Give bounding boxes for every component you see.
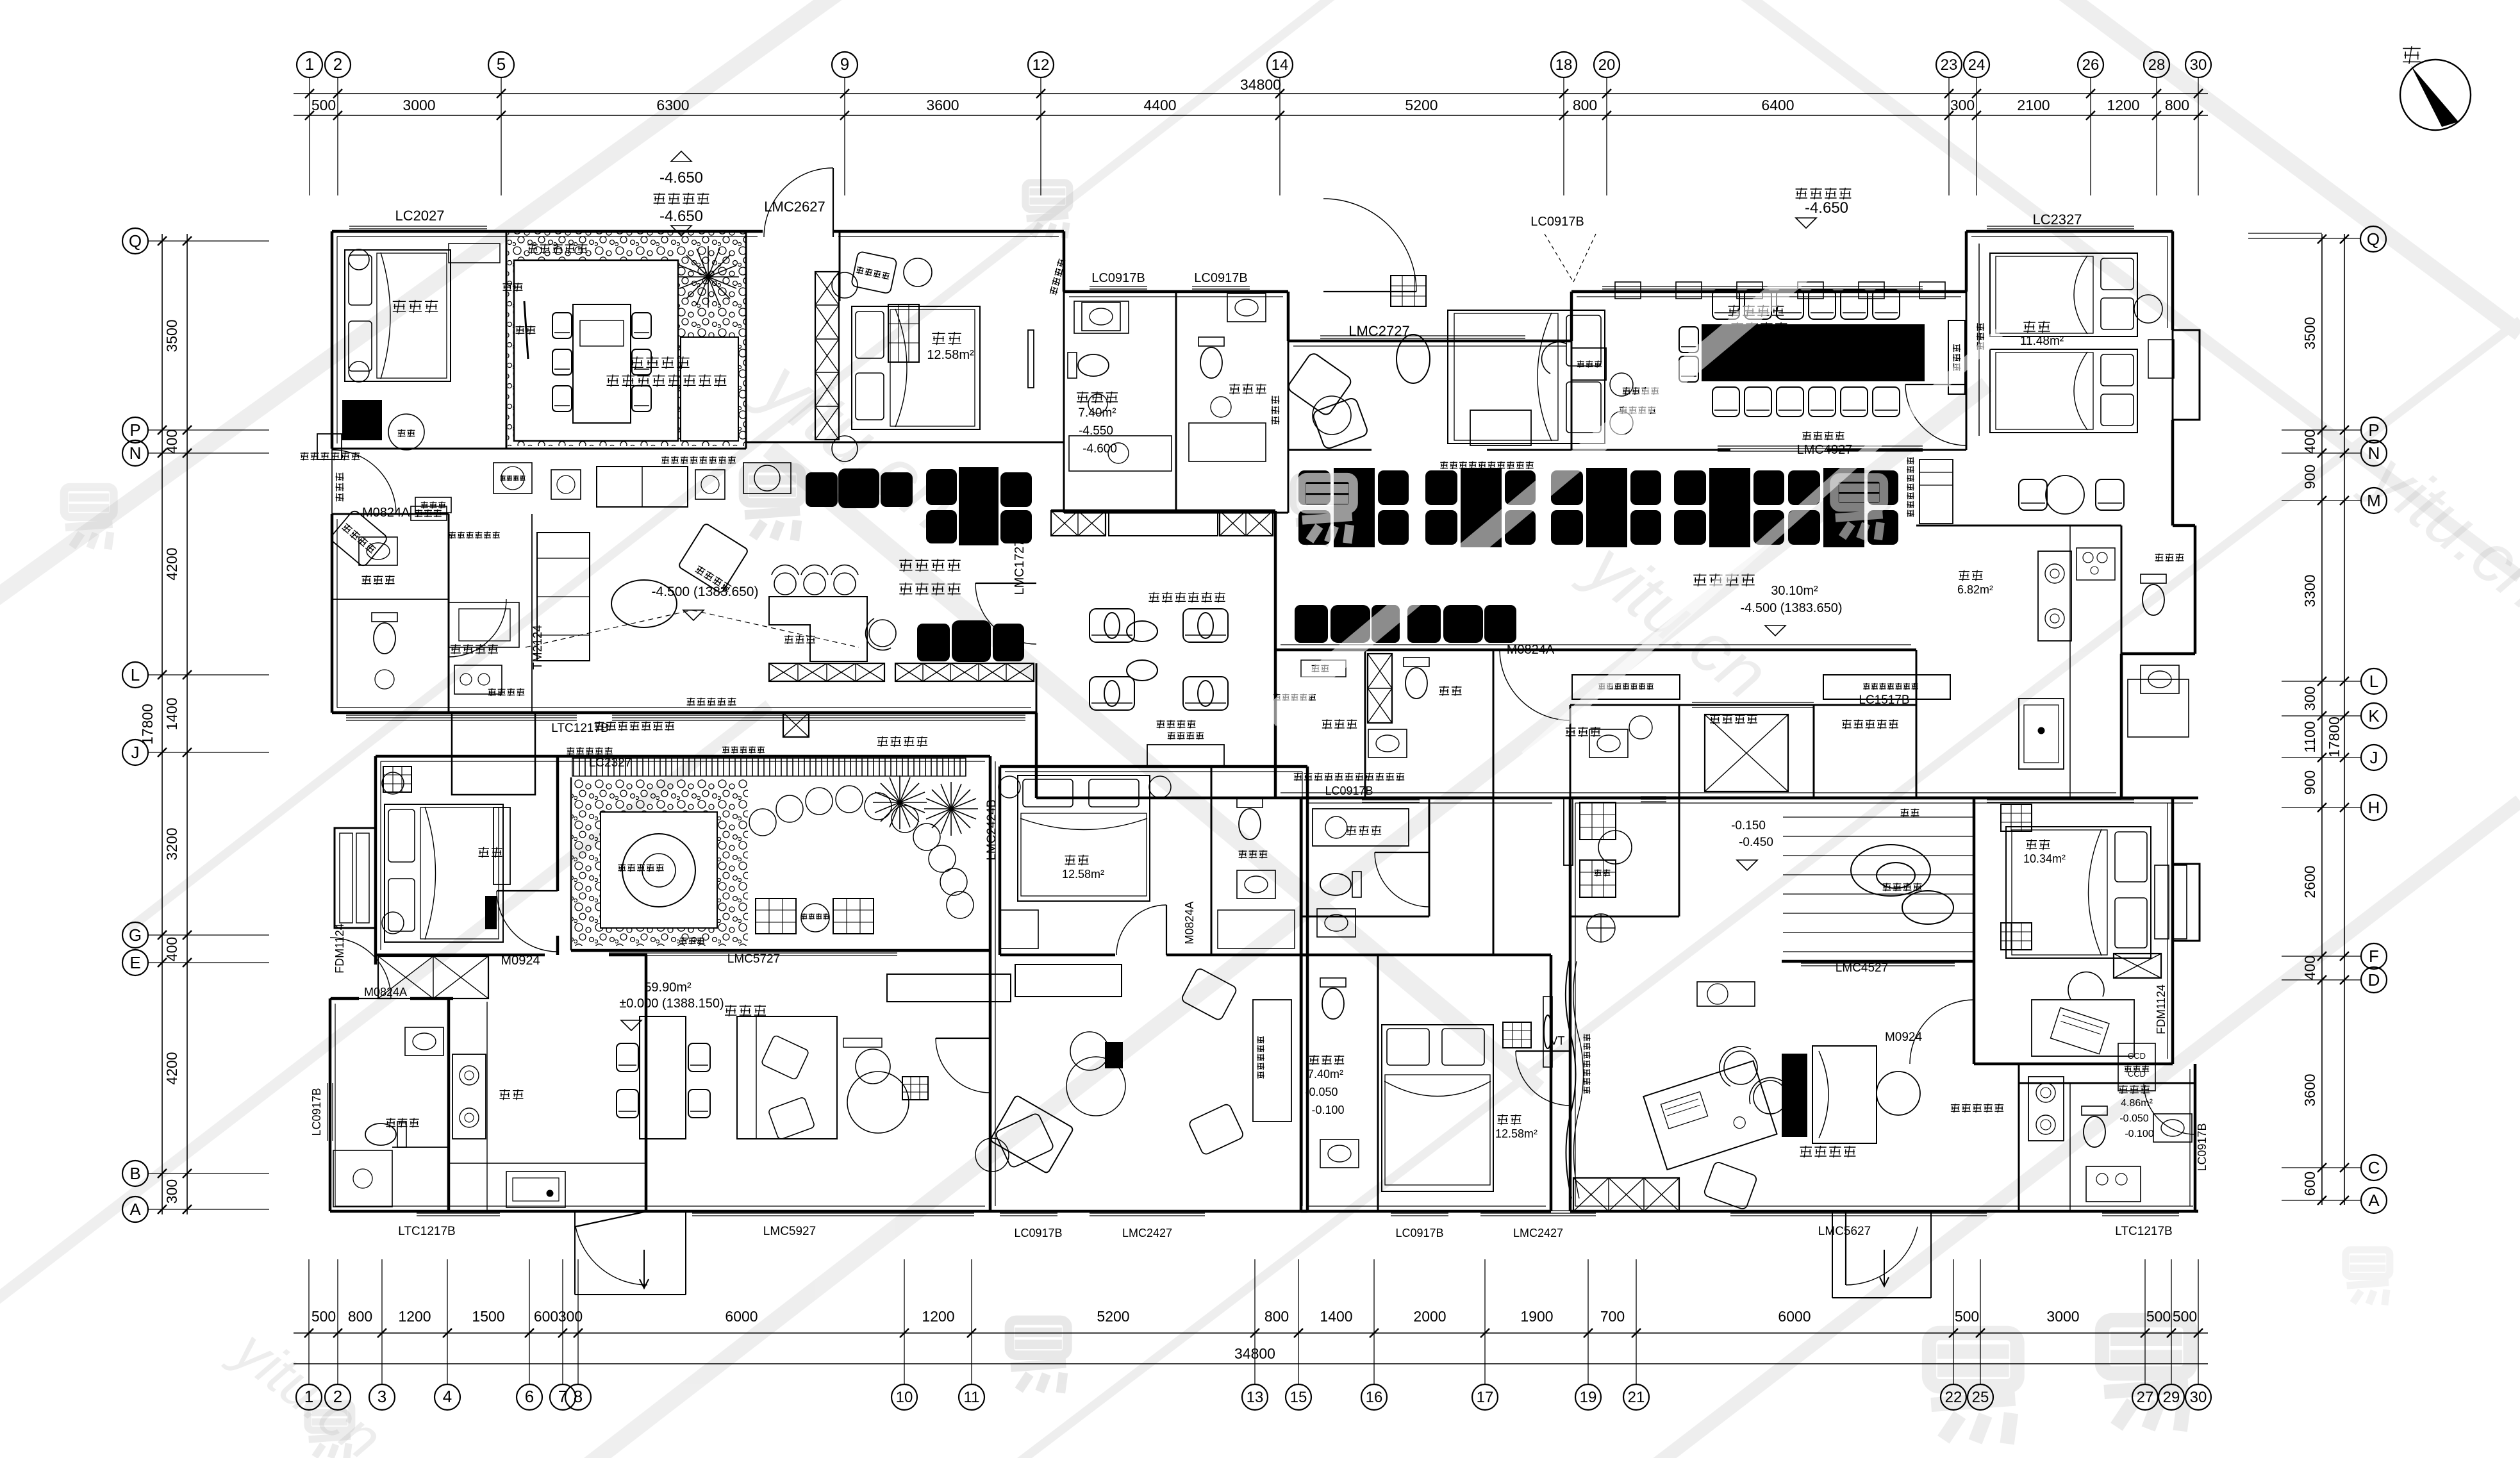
svg-text:LMC5727: LMC5727 xyxy=(727,952,780,966)
bottom-left bathroom fixtures xyxy=(405,1027,443,1056)
kitchen top wing xyxy=(1959,570,1983,581)
svg-text:1200: 1200 xyxy=(2107,97,2139,113)
svg-text:F: F xyxy=(2369,947,2379,966)
svg-text:Q: Q xyxy=(2367,229,2380,249)
svg-text:C: C xyxy=(2368,1158,2380,1177)
svg-text:LC0917B: LC0917B xyxy=(1325,784,1373,797)
bathrooms 7.40 block xyxy=(1074,301,1129,333)
svg-text:7.40m²: 7.40m² xyxy=(1307,1068,1343,1081)
svg-text:LMC2727: LMC2727 xyxy=(1348,323,1409,339)
bottom wing outer walls xyxy=(376,755,990,758)
svg-text:17: 17 xyxy=(1477,1389,1494,1406)
svg-text:3300: 3300 xyxy=(2301,574,2318,607)
svg-text:-4.650: -4.650 xyxy=(1805,199,1848,217)
svg-text:FDM1124: FDM1124 xyxy=(2155,984,2168,1034)
afternoon tea black seating xyxy=(806,472,838,507)
svg-text:E: E xyxy=(129,953,140,972)
svg-text:600: 600 xyxy=(2301,1172,2318,1196)
svg-text:24: 24 xyxy=(1968,56,1985,74)
svg-text:30: 30 xyxy=(2190,1389,2207,1406)
svg-text:L: L xyxy=(131,665,140,684)
svg-text:500: 500 xyxy=(311,97,336,113)
svg-text:29: 29 xyxy=(2163,1389,2180,1406)
svg-text:900: 900 xyxy=(2301,770,2318,795)
svg-text:±0.000 (1388.150): ±0.000 (1388.150) xyxy=(619,997,724,1011)
top wing interior partitions xyxy=(506,231,508,449)
svg-text:500: 500 xyxy=(2173,1308,2197,1325)
north arrow xyxy=(2400,60,2471,130)
svg-text:LMC2427: LMC2427 xyxy=(1513,1227,1563,1239)
svg-text:6400: 6400 xyxy=(1761,97,1794,113)
svg-text:300: 300 xyxy=(1950,97,1975,113)
svg-text:K: K xyxy=(2368,706,2380,725)
svg-text:3: 3 xyxy=(377,1387,386,1406)
svg-text:A: A xyxy=(129,1200,141,1219)
svg-text:1: 1 xyxy=(305,54,314,74)
svg-text:800: 800 xyxy=(1573,97,1597,113)
svg-text:12.58m²: 12.58m² xyxy=(1495,1127,1538,1140)
bottom wing windows xyxy=(417,1210,500,1211)
svg-text:H: H xyxy=(2368,798,2380,817)
bedroom 12.58 top xyxy=(852,306,980,429)
middle suite bottom wing xyxy=(1018,775,1150,901)
svg-text:LTC1217B: LTC1217B xyxy=(398,1225,455,1238)
svg-text:3600: 3600 xyxy=(926,97,959,113)
svg-text:1400: 1400 xyxy=(1320,1308,1352,1325)
svg-text:-4.550: -4.550 xyxy=(1079,424,1113,438)
svg-text:3600: 3600 xyxy=(2301,1073,2318,1106)
svg-text:LC0917B: LC0917B xyxy=(1091,271,1145,285)
svg-text:12.58m²: 12.58m² xyxy=(1062,868,1104,881)
buffet dining black clusters xyxy=(1298,470,1330,505)
reception hall xyxy=(1580,802,1616,840)
svg-text:LC0917B: LC0917B xyxy=(1530,215,1584,229)
svg-text:G: G xyxy=(129,925,142,945)
svg-text:LMC2424B: LMC2424B xyxy=(985,799,999,860)
svg-text:500: 500 xyxy=(2146,1308,2171,1325)
svg-text:CCD: CCD xyxy=(2128,1051,2146,1061)
svg-text:LC0917B: LC0917B xyxy=(1395,1227,1443,1239)
svg-text:Q: Q xyxy=(129,231,142,251)
svg-text:4200: 4200 xyxy=(163,1052,180,1084)
svg-text:13: 13 xyxy=(1247,1389,1264,1406)
svg-text:M0824A: M0824A xyxy=(364,986,407,998)
top wing outer walls xyxy=(332,230,763,233)
svg-text:3200: 3200 xyxy=(163,827,180,860)
svg-text:L: L xyxy=(2369,672,2378,691)
svg-text:6000: 6000 xyxy=(725,1308,758,1325)
svg-text:300: 300 xyxy=(2301,686,2318,711)
svg-text:22: 22 xyxy=(1945,1389,1962,1406)
svg-text:P: P xyxy=(2368,420,2379,440)
svg-text:-4.600: -4.600 xyxy=(1082,442,1117,456)
svg-text:2600: 2600 xyxy=(2301,865,2318,898)
svg-text:27: 27 xyxy=(2137,1389,2154,1406)
svg-text:12: 12 xyxy=(1032,56,1050,74)
svg-text:11: 11 xyxy=(964,1389,980,1406)
svg-text:-0.450: -0.450 xyxy=(1739,836,1773,849)
svg-text:30.10m²: 30.10m² xyxy=(1771,584,1818,598)
svg-text:LC2327: LC2327 xyxy=(2032,211,2082,228)
svg-text:500: 500 xyxy=(1955,1308,1979,1325)
misc connector labels bottom xyxy=(936,1038,990,1093)
svg-text:59.90m²: 59.90m² xyxy=(644,981,692,995)
wine cigar lounge xyxy=(1090,609,1134,642)
svg-text:-0.150: -0.150 xyxy=(1731,819,1766,833)
bottom-left bedroom xyxy=(385,804,503,942)
svg-text:B: B xyxy=(129,1164,140,1183)
svg-text:LC2027: LC2027 xyxy=(395,208,444,224)
svg-text:3000: 3000 xyxy=(2046,1308,2079,1325)
svg-text:LC0917B: LC0917B xyxy=(310,1088,323,1136)
svg-text:N: N xyxy=(2368,443,2380,463)
svg-text:5: 5 xyxy=(497,54,506,74)
svg-text:LMC5927: LMC5927 xyxy=(763,1225,816,1238)
svg-text:400: 400 xyxy=(163,429,180,454)
svg-text:5200: 5200 xyxy=(1097,1308,1129,1325)
svg-text:900: 900 xyxy=(2301,465,2318,489)
svg-text:400: 400 xyxy=(2301,956,2318,980)
svg-text:8: 8 xyxy=(574,1387,583,1406)
svg-text:1400: 1400 xyxy=(163,697,180,730)
svg-text:3500: 3500 xyxy=(163,319,180,352)
mid bathrooms block xyxy=(1313,809,1409,846)
bottom-left kitchen fixtures xyxy=(452,1054,486,1139)
svg-text:1: 1 xyxy=(304,1387,313,1406)
svg-text:P: P xyxy=(129,420,140,440)
svg-text:300: 300 xyxy=(558,1308,583,1325)
svg-text:6000: 6000 xyxy=(1778,1308,1811,1325)
svg-text:400: 400 xyxy=(163,937,180,961)
bottom-left living/dining xyxy=(640,1016,686,1139)
svg-text:M: M xyxy=(2367,491,2381,510)
svg-text:3500: 3500 xyxy=(2301,317,2318,349)
svg-text:4: 4 xyxy=(443,1387,452,1406)
svg-text:-4.650: -4.650 xyxy=(659,208,703,225)
svg-text:6.82m²: 6.82m² xyxy=(1957,583,1993,596)
svg-text:400: 400 xyxy=(2301,429,2318,454)
svg-text:J: J xyxy=(2370,748,2378,767)
svg-text:N: N xyxy=(129,443,142,463)
svg-text:2000: 2000 xyxy=(1413,1308,1446,1325)
svg-text:15: 15 xyxy=(1290,1389,1307,1406)
svg-text:LMC4527: LMC4527 xyxy=(1836,961,1888,975)
svg-text:-0.100: -0.100 xyxy=(2125,1129,2153,1139)
svg-text:4200: 4200 xyxy=(163,547,180,580)
svg-text:12.58m²: 12.58m² xyxy=(927,348,974,362)
band bottom-left bath & bakery xyxy=(372,613,397,654)
svg-text:30: 30 xyxy=(2190,56,2207,74)
svg-text:LC0917B: LC0917B xyxy=(2196,1123,2209,1171)
svg-text:6300: 6300 xyxy=(656,97,689,113)
svg-text:LC1517B: LC1517B xyxy=(1859,693,1909,707)
svg-text:M0824A: M0824A xyxy=(362,506,410,520)
guest room five xyxy=(345,250,451,381)
svg-text:-0.100: -0.100 xyxy=(1311,1104,1344,1116)
svg-text:LTC1217B: LTC1217B xyxy=(2115,1225,2172,1238)
svg-text:1500: 1500 xyxy=(472,1308,504,1325)
svg-text:1200: 1200 xyxy=(398,1308,431,1325)
svg-text:9: 9 xyxy=(840,54,849,74)
svg-text:5200: 5200 xyxy=(1405,97,1438,113)
svg-text:-0.050: -0.050 xyxy=(1305,1086,1338,1098)
svg-text:25: 25 xyxy=(1972,1389,1989,1406)
svg-text:4400: 4400 xyxy=(1143,97,1176,113)
svg-text:10: 10 xyxy=(896,1389,913,1406)
svg-text:LMC5627: LMC5627 xyxy=(1818,1225,1871,1238)
svg-text:20: 20 xyxy=(1598,56,1616,74)
connector rooms labels xyxy=(1312,665,1329,672)
svg-text:2: 2 xyxy=(333,1387,342,1406)
svg-text:18: 18 xyxy=(1555,56,1573,74)
svg-text:LTC1217B: LTC1217B xyxy=(551,722,608,735)
svg-text:LMC2627: LMC2627 xyxy=(764,199,825,215)
svg-text:2100: 2100 xyxy=(2017,97,2050,113)
svg-text:1900: 1900 xyxy=(1520,1308,1553,1325)
inner wall parallels (double-line walls) xyxy=(337,236,758,237)
svg-text:-4.650: -4.650 xyxy=(659,169,703,186)
svg-text:21: 21 xyxy=(1628,1389,1645,1406)
level markers xyxy=(671,151,692,162)
svg-text:14: 14 xyxy=(1272,56,1289,74)
svg-text:FDM1124: FDM1124 xyxy=(333,924,346,973)
svg-text:J: J xyxy=(131,743,140,762)
svg-text:800: 800 xyxy=(1264,1308,1289,1325)
svg-text:11.48m²: 11.48m² xyxy=(2020,335,2064,348)
svg-text:17800: 17800 xyxy=(139,704,156,745)
middle suite xyxy=(1448,310,1605,443)
svg-text:LC0917B: LC0917B xyxy=(1194,271,1247,285)
svg-text:D: D xyxy=(2368,970,2380,990)
svg-text:500: 500 xyxy=(311,1308,336,1325)
svg-text:LC0917B: LC0917B xyxy=(1014,1227,1062,1239)
watermark overlay (white streaks over dark areas) xyxy=(1269,192,2000,756)
svg-text:LMC2427: LMC2427 xyxy=(1122,1227,1172,1239)
svg-text:M0824A: M0824A xyxy=(1183,901,1196,944)
svg-text:600: 600 xyxy=(534,1308,558,1325)
bottom courtyard xyxy=(572,758,966,776)
dining band left: sofas, bar xyxy=(597,467,688,507)
svg-text:2: 2 xyxy=(333,54,342,74)
svg-text:34800: 34800 xyxy=(1234,1345,1275,1362)
svg-text:1200: 1200 xyxy=(922,1308,954,1325)
svg-text:300: 300 xyxy=(163,1179,180,1204)
svg-text:800: 800 xyxy=(2165,97,2189,113)
svg-text:M0924: M0924 xyxy=(1885,1031,1923,1044)
svg-text:LMC4927: LMC4927 xyxy=(1797,443,1853,457)
svg-text:34800: 34800 xyxy=(1240,76,1281,93)
svg-text:7.40m²: 7.40m² xyxy=(1078,406,1116,420)
svg-text:1100: 1100 xyxy=(2301,721,2318,752)
svg-text:M0924: M0924 xyxy=(501,954,540,968)
svg-text:-4.500 (1383.650): -4.500 (1383.650) xyxy=(652,584,759,599)
bedroom 11.48 xyxy=(1990,253,2137,336)
svg-text:10.34m²: 10.34m² xyxy=(2023,852,2066,865)
svg-text:23: 23 xyxy=(1941,56,1958,74)
svg-text:28: 28 xyxy=(2148,56,2166,74)
bench seating row xyxy=(1295,605,1328,643)
pebble courtyard top xyxy=(508,231,746,446)
french dining xyxy=(1702,324,1925,381)
svg-text:-0.050: -0.050 xyxy=(2119,1113,2148,1124)
svg-text:800: 800 xyxy=(348,1308,372,1325)
svg-text:26: 26 xyxy=(2082,56,2100,74)
svg-text:16: 16 xyxy=(1366,1389,1383,1406)
svg-text:19: 19 xyxy=(1580,1389,1597,1406)
svg-text:TM2124: TM2124 xyxy=(531,625,545,670)
svg-text:LMC1727: LMC1727 xyxy=(1013,540,1027,595)
svg-text:A: A xyxy=(2368,1191,2380,1210)
svg-text:-4.500 (1383.650): -4.500 (1383.650) xyxy=(1740,601,1842,615)
svg-text:17800: 17800 xyxy=(2326,717,2342,758)
svg-text:6: 6 xyxy=(525,1387,534,1406)
svg-text:3000: 3000 xyxy=(402,97,435,113)
svg-text:700: 700 xyxy=(1600,1308,1625,1325)
